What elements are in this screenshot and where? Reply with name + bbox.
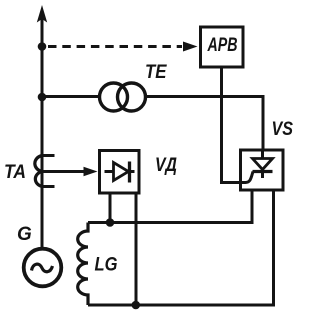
wire dashed to APB	[48, 45, 182, 48]
transformer TE	[100, 83, 146, 111]
svg-text:TE: TE	[145, 62, 168, 83]
wire to TE	[44, 95, 100, 98]
thyristor VS box	[241, 150, 284, 190]
wire VD right leg	[135, 193, 138, 305]
node junction dot TE tap	[38, 93, 47, 102]
diode symbol	[105, 162, 135, 183]
arrow up on bus	[37, 5, 47, 23]
arrowhead into VD	[84, 167, 98, 176]
wire loop bottom	[88, 190, 274, 305]
generator G circle	[24, 249, 62, 287]
svg-text:LG: LG	[95, 255, 118, 276]
node junction dot VD-right bottom	[132, 301, 141, 310]
svg-text:АРВ: АРВ	[207, 35, 238, 56]
node junction dot upper	[38, 42, 47, 51]
svg-text:G: G	[17, 224, 32, 245]
wire TE to VS anode	[146, 97, 264, 151]
wire bus vertical	[41, 13, 44, 248]
wire APB to VS gate	[222, 67, 241, 183]
svg-text:VS: VS	[272, 119, 294, 140]
wire VD left leg	[109, 193, 112, 223]
svg-text:VД: VД	[155, 155, 177, 176]
arrowhead into APB	[183, 42, 198, 52]
thyristor symbol	[241, 150, 273, 183]
svg-text:TA: TA	[4, 162, 26, 183]
transformer TA arcs	[35, 156, 42, 187]
inductor LG coil	[78, 223, 88, 306]
wire TA to VD	[42, 170, 85, 173]
node junction dot VD-left	[106, 218, 115, 227]
rectifier VD box	[100, 151, 140, 194]
regulator U APB box	[201, 27, 244, 67]
sine symbol	[32, 264, 53, 272]
TA tick top	[42, 154, 55, 157]
wire loop top	[88, 190, 252, 223]
TA tick bottom	[42, 185, 55, 188]
